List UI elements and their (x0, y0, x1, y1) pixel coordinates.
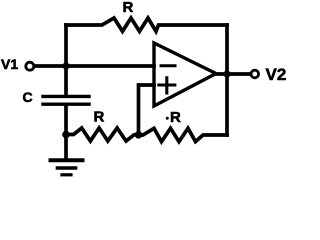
svg-text:R: R (170, 109, 181, 126)
svg-text:R: R (123, 0, 134, 16)
svg-text:V1: V1 (1, 56, 18, 72)
svg-text:C: C (23, 89, 33, 105)
svg-text:R: R (94, 109, 105, 126)
svg-text:V2: V2 (266, 65, 287, 84)
